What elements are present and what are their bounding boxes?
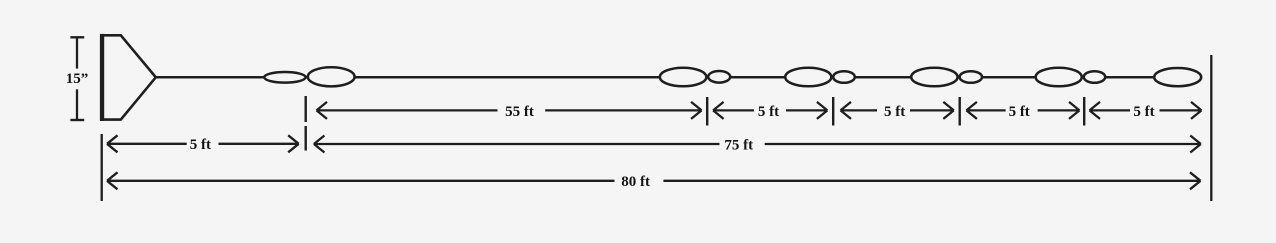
- dim 80ft right arrow: [663, 172, 1200, 189]
- tow line: [156, 76, 1153, 79]
- svg-text:5 ft: 5 ft: [1133, 104, 1154, 120]
- dim 5ft(4) right arrow: [1160, 102, 1202, 119]
- dim 75ft left arrow: [314, 136, 720, 153]
- dim 5ft(4) left arrow: [1090, 102, 1131, 119]
- drogue triangle outline: [100, 35, 156, 119]
- dimension 15in: vertical line upper segment: [76, 37, 78, 68]
- tick D: [959, 97, 961, 126]
- svg-text:80 ft: 80 ft: [621, 174, 650, 190]
- float F9 large ellipse: [1036, 68, 1082, 87]
- svg-text:5 ft: 5 ft: [1009, 104, 1030, 120]
- drogue leading bar (thick vertical): [100, 34, 104, 121]
- svg-text:15”: 15”: [66, 71, 89, 87]
- tick B: [706, 97, 708, 126]
- float F4 small circle: [708, 71, 730, 83]
- dim 5ft(2) right arrow: [910, 102, 954, 119]
- dimension 15in: bottom cap: [70, 119, 84, 121]
- right boundary line: [1210, 55, 1212, 201]
- float F11 tail ellipse: [1154, 68, 1201, 86]
- dim 55ft right arrow: [545, 102, 701, 119]
- float F6 small circle: [833, 71, 855, 83]
- svg-text:55 ft: 55 ft: [505, 104, 534, 120]
- left boundary line: [101, 134, 103, 201]
- svg-text:5 ft: 5 ft: [884, 104, 905, 120]
- dim 5ft(1) right arrow: [786, 102, 827, 119]
- dim 5ft(row2) left arrow: [107, 135, 187, 152]
- dim 80ft left arrow: [107, 172, 615, 189]
- float F3 large ellipse: [660, 68, 707, 87]
- dim 5ft(3) left arrow: [966, 102, 1005, 119]
- float F5 large ellipse: [785, 68, 831, 87]
- dim 5ft(2) left arrow: [841, 102, 878, 119]
- float F1 small ellipse: [264, 72, 305, 83]
- tick C: [832, 97, 834, 126]
- tick A upper segment: [305, 96, 307, 122]
- float F2 large ellipse: [308, 67, 355, 86]
- dim 5ft(row2) right arrow: [219, 135, 299, 152]
- dim 5ft(3) right arrow: [1038, 102, 1080, 119]
- dim 55ft left arrow: [317, 102, 498, 119]
- dim 5ft(1) left arrow: [713, 102, 754, 119]
- svg-text:5 ft: 5 ft: [758, 104, 779, 120]
- float F8 small circle: [960, 71, 982, 83]
- dimension 15in: vertical line lower segment: [76, 89, 78, 120]
- dim 75ft right arrow: [765, 136, 1201, 153]
- float F10 small circle: [1084, 71, 1105, 83]
- svg-text:5 ft: 5 ft: [190, 137, 211, 153]
- float F7 large ellipse: [911, 68, 957, 87]
- tick E: [1083, 97, 1085, 126]
- svg-text:75 ft: 75 ft: [724, 137, 753, 153]
- dimension 15in: top cap: [70, 36, 84, 38]
- tick A lower segment: [305, 126, 307, 151]
